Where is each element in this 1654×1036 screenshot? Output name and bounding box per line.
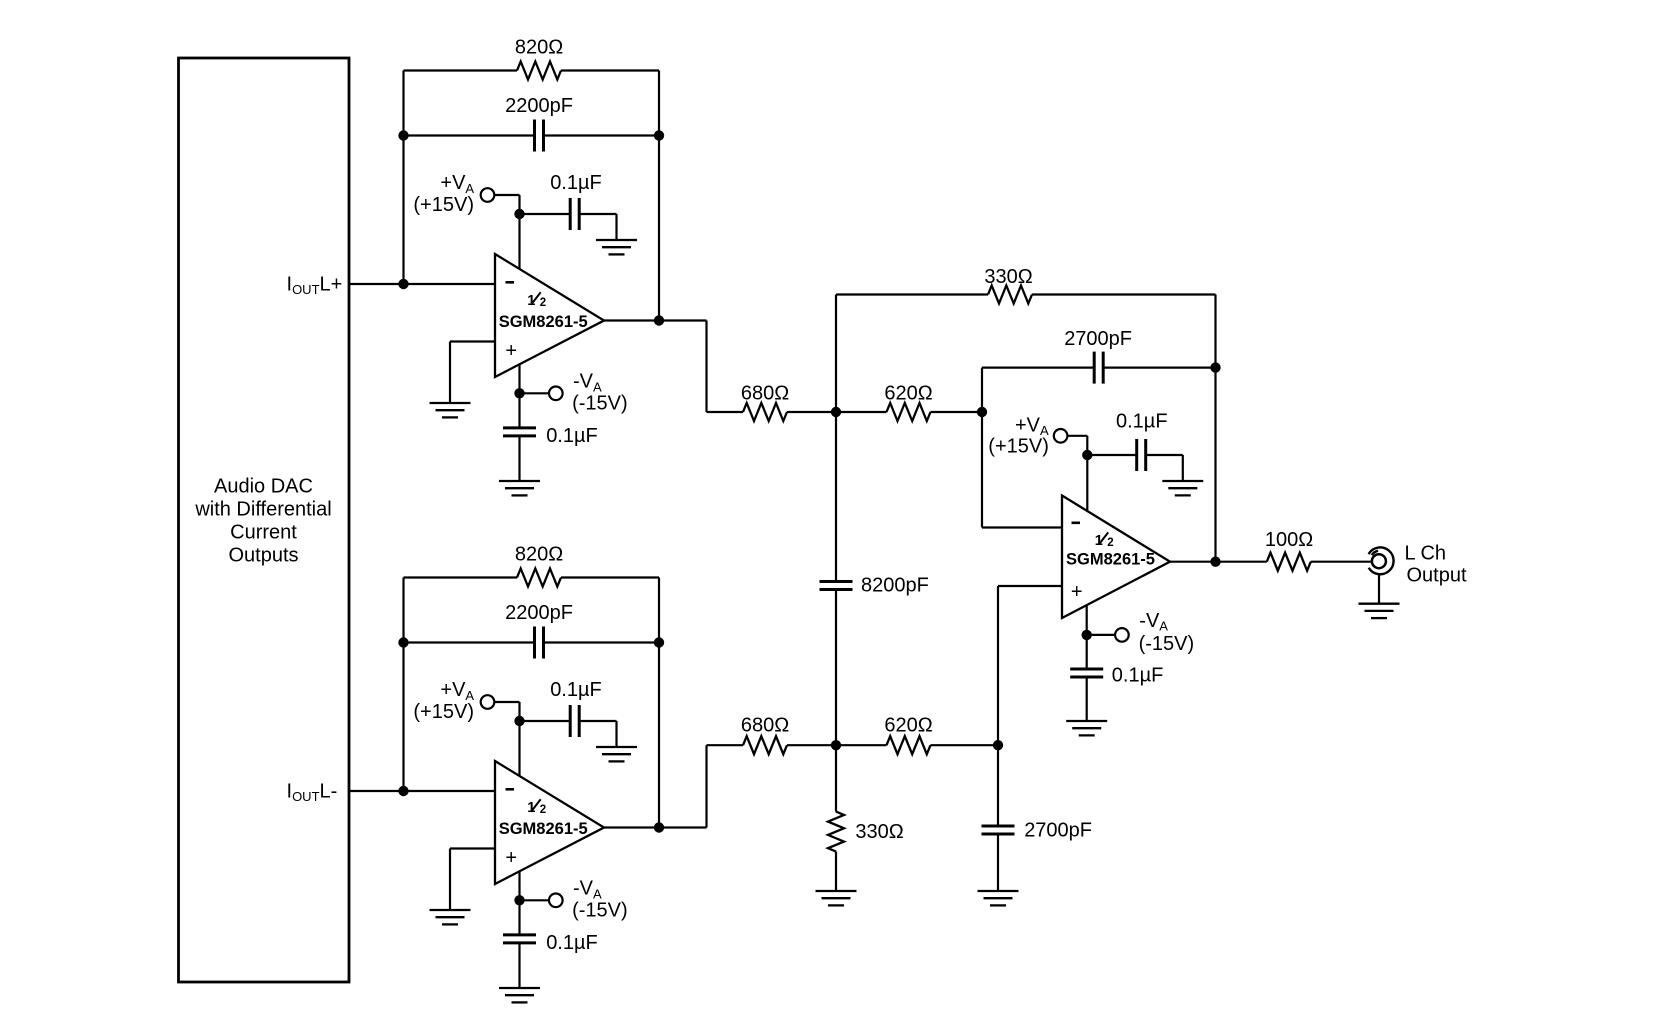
DAC block (Audio DAC with Differential Current Outputs)	[179, 58, 350, 982]
label 680Ω (top)	[741, 382, 789, 404]
node bottom-stage feedback right on 2200pF branch	[654, 637, 664, 647]
svg-text:Current: Current	[230, 522, 297, 544]
svg-text:+VA: +VA	[440, 679, 474, 703]
label Output	[1407, 565, 1467, 587]
svg-text:-VA: -VA	[1139, 610, 1168, 634]
wire op-amp V- pin (top stage)	[518, 364, 520, 394]
wire +VA to op-amp V+ pin (bottom stage)	[494, 702, 519, 777]
wire top-stage output to 680Ω	[604, 321, 743, 413]
svg-text:620Ω: 620Ω	[884, 382, 932, 404]
svg-text:0.1µF: 0.1µF	[1112, 664, 1164, 686]
node -VA junction (output stage)	[1082, 630, 1092, 640]
wire M1 to 620Ω to node N1	[836, 411, 982, 413]
capacitor 2200pF (top stage feedback)	[535, 120, 544, 152]
ground (output connector)	[1359, 604, 1400, 618]
capacitor 8200pF	[820, 582, 853, 590]
label (+15V)	[413, 701, 474, 723]
svg-text:0.1µF: 0.1µF	[550, 679, 602, 701]
svg-text:Output: Output	[1407, 565, 1467, 587]
label 0.1µF	[546, 425, 598, 447]
node 2700pF feedback right junction	[1210, 362, 1220, 372]
wire +VA to op-amp V+ pin (output stage)	[1067, 436, 1087, 512]
terminal +VA (bottom stage)	[481, 695, 495, 709]
ground (-VA decoupling, top stage)	[499, 481, 540, 495]
wire M2 to 620Ω to node N2	[836, 744, 998, 746]
resistor 820Ω (bottom stage feedback)	[517, 569, 561, 587]
svg-text:2: 2	[540, 804, 546, 816]
svg-text:2200pF: 2200pF	[505, 602, 573, 624]
resistor 680Ω (bottom)	[743, 736, 787, 754]
wire +VA to op-amp V+ pin (top stage)	[494, 195, 519, 270]
capacitor 0.1µF (+VA decoupling, bottom stage)	[570, 705, 579, 737]
svg-text:+: +	[505, 847, 517, 869]
svg-text:330Ω: 330Ω	[855, 821, 903, 843]
label 620Ω (top)	[884, 382, 932, 404]
wire 680Ω bottom to node M2	[787, 744, 836, 746]
node +VA decoupling junction (top stage)	[514, 209, 524, 219]
label (-15V)	[572, 393, 628, 415]
svg-text:(+15V): (+15V)	[413, 194, 474, 216]
label +VA	[440, 172, 474, 196]
label - (inverting input)	[1072, 522, 1081, 525]
node top-stage feedback right on 2200pF branch	[654, 130, 664, 140]
label +VA	[1015, 414, 1049, 438]
wire -VA junction to terminal (bottom stage)	[520, 899, 550, 901]
svg-text:620Ω: 620Ω	[884, 714, 932, 736]
label (+15V)	[413, 194, 474, 216]
label 2700pF (to ground)	[1024, 820, 1092, 842]
svg-text:(+15V): (+15V)	[413, 701, 474, 723]
ground (330Ω)	[816, 891, 857, 905]
op-amp 1/2 SGM8261-5 (top stage)	[495, 254, 604, 377]
wire Iₒᵤₜ L+ from DAC to inverting input	[349, 283, 495, 285]
resistor 820Ω (top stage feedback)	[517, 62, 561, 80]
svg-text:-VA: -VA	[573, 878, 602, 902]
svg-text:680Ω: 680Ω	[741, 714, 789, 736]
wire -VA to decoupling cap (top stage)	[518, 393, 520, 481]
svg-text:0.1µF: 0.1µF	[550, 172, 602, 194]
svg-text:-VA: -VA	[573, 371, 602, 395]
svg-text:8200pF: 8200pF	[861, 574, 929, 596]
ground (+VA decoupling, top stage)	[596, 240, 637, 254]
svg-text:2700pF: 2700pF	[1024, 820, 1092, 842]
wire U3 output to 100Ω	[1170, 561, 1267, 563]
wire bottom-stage feedback loop (820 ohm branch)	[404, 578, 660, 828]
wire 100Ω to output connector	[1311, 561, 1373, 563]
node N1 (inverting side)	[977, 407, 987, 417]
op-amp 1/2 SGM8261-5 (output stage)	[1062, 496, 1170, 619]
wire 8200pF branch between M1 and M2	[835, 412, 837, 745]
label 620Ω (bottom)	[884, 714, 932, 736]
wire N1 up to 2700pF feedback	[982, 368, 1216, 412]
label SGM8261-5	[499, 313, 588, 331]
node +VA decoupling junction (bottom stage)	[514, 716, 524, 726]
svg-text:L Ch: L Ch	[1405, 543, 1447, 565]
wire -VA to decoupling cap (bottom stage)	[518, 900, 520, 988]
wire non-inverting input to ground (top stage)	[450, 342, 495, 404]
label - (inverting input)	[506, 788, 515, 791]
label L Ch	[1405, 543, 1447, 565]
resistor 330Ω (to ground)	[828, 812, 844, 852]
label -VA	[573, 878, 602, 902]
wire 330Ω feedback branch	[836, 295, 1216, 562]
svg-text:SGM8261-5: SGM8261-5	[499, 820, 588, 838]
svg-text:(-15V): (-15V)	[572, 900, 628, 922]
svg-text:Audio DAC: Audio DAC	[214, 475, 313, 497]
node M1 (top summing node)	[831, 407, 841, 417]
svg-text:SGM8261-5: SGM8261-5	[499, 313, 588, 331]
svg-text:(+15V): (+15V)	[988, 436, 1049, 458]
svg-text:(-15V): (-15V)	[572, 393, 628, 415]
svg-text:820Ω: 820Ω	[515, 37, 563, 59]
label SGM8261-5	[499, 820, 588, 838]
wire -VA junction to terminal (output stage)	[1087, 634, 1115, 636]
ground (-VA decoupling, output stage)	[1066, 721, 1107, 735]
wire M2 down to 330Ω to ground	[835, 745, 837, 891]
label - (inverting input)	[506, 281, 515, 284]
label 0.1µF	[550, 172, 602, 194]
wire N1 down to inverting input of U3	[982, 412, 1062, 528]
capacitor 2700pF (feedback)	[1094, 352, 1103, 384]
capacitor 0.1µF (+VA decoupling, top stage)	[570, 198, 579, 230]
node -VA junction (top stage)	[514, 388, 524, 398]
node top-stage feedback left on 2200pF branch	[398, 130, 408, 140]
label (-15V)	[572, 900, 628, 922]
ground (non-inverting input, bottom stage)	[430, 910, 471, 924]
svg-text:680Ω: 680Ω	[741, 382, 789, 404]
wire op-amp V- pin (output stage)	[1086, 605, 1088, 635]
label IOUT L-	[287, 780, 338, 804]
wire top-stage feedback loop (820 ohm branch)	[404, 71, 660, 321]
terminal +VA (output stage)	[1054, 429, 1068, 443]
label 0.1µF	[1116, 411, 1168, 433]
ground (+VA decoupling, bottom stage)	[596, 747, 637, 761]
label 100Ω	[1265, 529, 1313, 551]
node top-stage inverting input	[398, 279, 408, 289]
svg-text:330Ω: 330Ω	[984, 266, 1032, 288]
node M2 (bottom summing node)	[831, 740, 841, 750]
terminal +VA (top stage)	[481, 188, 495, 202]
node bottom-stage output	[654, 822, 664, 832]
resistor 100Ω	[1267, 553, 1311, 571]
svg-text:2200pF: 2200pF	[505, 95, 573, 117]
resistor 680Ω (top)	[743, 403, 787, 421]
svg-text:2: 2	[540, 297, 546, 309]
label 820Ω	[515, 544, 563, 566]
svg-text:Outputs: Outputs	[228, 544, 298, 566]
wire -VA to decoupling cap (output stage)	[1086, 635, 1088, 721]
label IOUT L+	[287, 273, 343, 297]
svg-text:100Ω: 100Ω	[1265, 529, 1313, 551]
resistor 620Ω (bottom)	[887, 736, 931, 754]
svg-text:+VA: +VA	[1015, 414, 1049, 438]
label 8200pF	[861, 574, 929, 596]
node bottom-stage feedback left on 2200pF branch	[398, 637, 408, 647]
wire Iₒᵤₜ L- from DAC to inverting input	[349, 790, 495, 792]
label 0.1µF	[550, 679, 602, 701]
label 1/2	[527, 292, 546, 309]
wire 680Ω top to node M1	[787, 411, 836, 413]
svg-text:(-15V): (-15V)	[1139, 633, 1195, 655]
wire node M1 up to 330Ω feedback branch	[835, 295, 837, 413]
wire non-inverting input to ground (bottom stage)	[450, 849, 495, 911]
ground (+VA decoupling, output stage)	[1162, 481, 1203, 495]
label 1/2	[527, 799, 546, 816]
wire bottom-stage 2200pF branch	[404, 641, 660, 643]
wire bottom-stage output to 680Ω	[604, 745, 743, 827]
resistor 620Ω (top)	[887, 403, 931, 421]
capacitor 0.1µF (+VA decoupling, output stage)	[1137, 439, 1146, 471]
label 0.1µF	[1112, 664, 1164, 686]
svg-text:820Ω: 820Ω	[515, 544, 563, 566]
label + (non-inverting input)	[1071, 581, 1083, 603]
wire +VA decoupling branch (top stage)	[520, 214, 617, 240]
ground (2700pF)	[978, 891, 1019, 905]
svg-text:2700pF: 2700pF	[1064, 328, 1132, 350]
wire op-amp V- pin (bottom stage)	[518, 871, 520, 901]
svg-text:+VA: +VA	[440, 172, 474, 196]
node N2 (non-inverting side)	[993, 740, 1003, 750]
DAC block label	[194, 475, 331, 566]
label (+15V)	[988, 436, 1049, 458]
svg-text:2: 2	[1107, 537, 1113, 549]
svg-text:0.1µF: 0.1µF	[1116, 411, 1168, 433]
wire N2 up to non-inverting input of U3	[998, 586, 1062, 745]
label 820Ω	[515, 37, 563, 59]
svg-text:0.1µF: 0.1µF	[546, 425, 598, 447]
capacitor 0.1µF (-VA decoupling, output stage)	[1070, 669, 1103, 677]
wire connector to ground	[1378, 575, 1380, 604]
node bottom-stage inverting input	[398, 786, 408, 796]
label 2200pF	[505, 602, 573, 624]
capacitor 0.1µF (-VA decoupling, bottom stage)	[503, 935, 536, 943]
wire +VA decoupling branch (bottom stage)	[520, 721, 617, 747]
label 330Ω (to ground)	[855, 821, 903, 843]
capacitor 0.1µF (-VA decoupling, top stage)	[503, 428, 536, 436]
node top-stage output	[654, 315, 664, 325]
terminal -VA (bottom stage)	[549, 894, 563, 908]
node U3 output junction	[1210, 557, 1220, 567]
svg-text:with Differential: with Differential	[194, 499, 331, 521]
resistor 330Ω (feedback)	[988, 286, 1032, 304]
connector L Ch Output (phono jack)	[1369, 547, 1394, 574]
label 2200pF	[505, 95, 573, 117]
label -VA	[573, 371, 602, 395]
terminal -VA (top stage)	[549, 387, 563, 401]
label 0.1µF	[546, 932, 598, 954]
capacitor 2700pF (to ground)	[982, 826, 1015, 834]
ground (non-inverting input, top stage)	[430, 403, 471, 417]
label 1/2	[1095, 532, 1114, 549]
svg-text:0.1µF: 0.1µF	[546, 932, 598, 954]
label (-15V)	[1139, 633, 1195, 655]
label -VA	[1139, 610, 1168, 634]
node +VA decoupling junction (output stage)	[1082, 450, 1092, 460]
wire N2 down to 2700pF to ground	[997, 745, 999, 891]
ground (-VA decoupling, bottom stage)	[499, 988, 540, 1002]
label SGM8261-5	[1066, 551, 1155, 569]
terminal -VA (output stage)	[1115, 628, 1129, 642]
wire -VA junction to terminal (top stage)	[520, 392, 550, 394]
label 330Ω (feedback)	[984, 266, 1032, 288]
label 680Ω (bottom)	[741, 714, 789, 736]
op-amp 1/2 SGM8261-5 (bottom stage)	[495, 761, 604, 884]
label 2700pF (feedback)	[1064, 328, 1132, 350]
capacitor 2200pF (bottom stage feedback)	[535, 627, 544, 659]
svg-text:SGM8261-5: SGM8261-5	[1066, 551, 1155, 569]
label +VA	[440, 679, 474, 703]
wire +VA decoupling branch (output stage)	[1087, 455, 1183, 481]
wire top-stage 2200pF branch	[404, 134, 660, 136]
svg-text:+: +	[1071, 581, 1083, 603]
svg-text:+: +	[505, 340, 517, 362]
label + (non-inverting input)	[505, 847, 517, 869]
label + (non-inverting input)	[505, 340, 517, 362]
node -VA junction (bottom stage)	[514, 895, 524, 905]
